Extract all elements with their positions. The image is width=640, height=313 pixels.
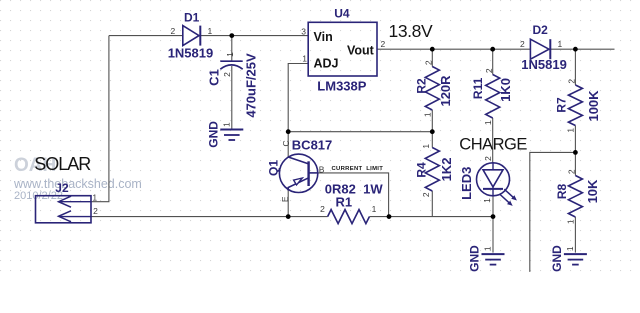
svg-text:GND: GND — [207, 121, 221, 148]
svg-text:1: 1 — [565, 219, 575, 224]
svg-text:Vout: Vout — [347, 44, 375, 58]
resistor R4 — [425, 148, 439, 192]
connector J2 — [36, 196, 92, 223]
svg-text:2: 2 — [423, 60, 433, 65]
LED LED3 — [477, 163, 517, 206]
resistor R7 — [568, 85, 582, 126]
junction Vout/R2 node — [430, 47, 435, 52]
svg-text:CHARGE: CHARGE — [459, 136, 527, 154]
svg-text:2: 2 — [93, 206, 98, 216]
wire U4 ADJ pin 1 down to node — [288, 64, 308, 132]
wire R2 top lead — [431, 49, 433, 66]
svg-text:ADJ: ADJ — [314, 57, 339, 71]
svg-text:1N5819: 1N5819 — [521, 57, 567, 72]
svg-text:2: 2 — [566, 79, 576, 84]
wire ADJ node to R2/R4 node — [288, 131, 432, 133]
svg-text:R4: R4 — [414, 162, 428, 178]
svg-text:1K2: 1K2 — [439, 158, 454, 182]
wire LED3 cathode to ground — [492, 196, 494, 253]
wire D1 cathode to U4 Vin pin 3 — [201, 35, 309, 37]
resistor R8 — [568, 176, 582, 218]
svg-text:2: 2 — [566, 169, 576, 174]
wire R11 bottom lead to LED3 anode — [492, 118, 494, 163]
svg-text:J2: J2 — [55, 181, 69, 195]
svg-text:1: 1 — [558, 39, 563, 49]
junction ADJ/Q1 collector node — [286, 129, 291, 134]
svg-text:10K: 10K — [585, 179, 600, 203]
svg-text:2: 2 — [171, 26, 176, 36]
svg-text:1N5819: 1N5819 — [168, 46, 214, 61]
svg-text:2: 2 — [520, 39, 525, 49]
ground symbol below LED3 — [482, 254, 505, 265]
junction Q1 emitter/bottom net — [286, 214, 291, 219]
svg-text:SOLAR: SOLAR — [34, 154, 91, 174]
svg-text:R1: R1 — [335, 195, 352, 210]
wire R1 right to LED3 cathode node — [369, 216, 493, 218]
op-amp regulator U4 LM338P — [308, 22, 377, 76]
svg-text:LED3: LED3 — [459, 167, 474, 200]
svg-text:2: 2 — [320, 204, 325, 214]
svg-text:U4: U4 — [334, 6, 350, 20]
svg-text:D1: D1 — [184, 11, 200, 25]
svg-text:Q1: Q1 — [266, 160, 280, 176]
svg-text:R11: R11 — [471, 77, 485, 99]
wire left vertical to J2 pin 1 — [91, 36, 109, 202]
svg-text:2: 2 — [222, 72, 232, 77]
resistor R2 — [425, 67, 439, 111]
svg-text:B: B — [319, 165, 325, 175]
svg-text:120R: 120R — [438, 75, 453, 107]
svg-text:1: 1 — [225, 52, 235, 57]
wire R8 bottom lead to ground — [574, 217, 576, 253]
wire D2 cathode to right edge — [551, 48, 615, 50]
svg-text:1: 1 — [565, 128, 575, 133]
resistor R1 — [328, 210, 370, 224]
ground symbol below R8 — [564, 254, 587, 265]
resistor R11 — [486, 75, 500, 119]
junction R7/R8 node — [573, 150, 578, 155]
svg-text:100K: 100K — [586, 90, 601, 122]
svg-text:1: 1 — [92, 192, 97, 202]
svg-text:2: 2 — [421, 192, 431, 197]
junction R2/R4 node — [430, 129, 435, 134]
diode D1 — [183, 26, 201, 46]
junction D2/R7 node — [573, 47, 578, 52]
svg-text:R8: R8 — [555, 184, 569, 200]
svg-text:GND: GND — [550, 245, 564, 272]
wire Q1 emitter lead — [287, 191, 289, 217]
junction LED3 cathode/ground node — [491, 214, 496, 219]
wire R7/R8 node to left branch going down — [530, 152, 576, 272]
svg-text:2: 2 — [484, 68, 494, 73]
ground symbol below C1 — [220, 130, 243, 141]
svg-text:LM338P: LM338P — [317, 78, 366, 93]
svg-text:1: 1 — [222, 122, 232, 127]
svg-text:R2: R2 — [414, 78, 428, 94]
svg-text:2: 2 — [381, 39, 386, 49]
svg-text:C: C — [281, 140, 291, 146]
transistor Q1 BC817 — [279, 154, 318, 192]
wire R11 top lead — [492, 49, 494, 74]
svg-text:3: 3 — [301, 27, 306, 37]
svg-text:C1: C1 — [207, 69, 222, 86]
wire R8 top lead — [574, 152, 576, 175]
wire R7 bottom lead — [574, 126, 576, 153]
wire R7 top lead — [574, 49, 576, 85]
diode D2 — [530, 39, 550, 59]
wire bottom net J2 pin 2 to R1 left — [91, 216, 328, 218]
svg-text:13.8V: 13.8V — [389, 21, 433, 41]
capacitor C1 — [220, 61, 242, 69]
wire Q1 collector lead — [287, 132, 289, 157]
wire top net from J2 corner to D1 anode — [109, 35, 183, 37]
svg-text:1: 1 — [422, 112, 432, 117]
svg-text:GND: GND — [468, 245, 482, 272]
wire R4 top lead — [431, 132, 433, 148]
wire C1 top lead — [231, 36, 233, 61]
svg-text:1: 1 — [302, 53, 307, 63]
svg-text:470uF/25V: 470uF/25V — [244, 53, 259, 118]
svg-text:D2: D2 — [533, 23, 549, 37]
svg-text:E: E — [280, 196, 290, 202]
svg-text:1: 1 — [372, 204, 377, 214]
junction Vout/R11 node — [490, 47, 495, 52]
svg-text:1: 1 — [421, 144, 431, 149]
svg-text:1: 1 — [483, 120, 493, 125]
svg-text:1: 1 — [482, 198, 492, 203]
svg-text:1: 1 — [483, 246, 493, 251]
wire R2 bottom lead — [431, 110, 433, 132]
wire C1 bottom lead to ground — [231, 66, 233, 129]
junction D1/C1 node — [229, 33, 234, 38]
svg-text:1K0: 1K0 — [498, 78, 513, 102]
junction R1/Q1 base node — [387, 214, 392, 219]
svg-text:1: 1 — [565, 246, 575, 251]
wire U4 Vout pin 2 to D2 anode, 13.8V net — [377, 48, 530, 50]
svg-text:Vin: Vin — [314, 30, 333, 44]
wire R4 bottom lead — [431, 191, 433, 217]
svg-text:BC817: BC817 — [292, 137, 332, 152]
svg-text:R7: R7 — [555, 97, 569, 113]
wire Q1 base to R1 right node — [318, 173, 389, 217]
svg-text:0R82 1W: 0R82 1W — [325, 181, 384, 196]
svg-text:1: 1 — [208, 26, 213, 36]
svg-text:CURRENT LIMIT: CURRENT LIMIT — [332, 166, 384, 172]
svg-text:2: 2 — [483, 156, 493, 161]
